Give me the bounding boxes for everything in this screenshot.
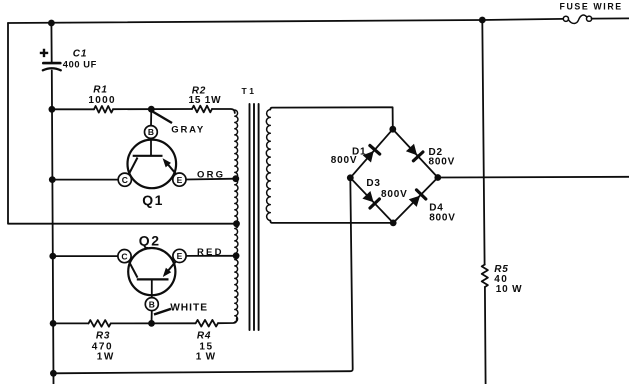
node R1/Q1-base junction [148,106,155,113]
node bridge left [347,174,354,181]
svg-text:1 W: 1 W [196,351,216,362]
resistor R2 [192,106,212,113]
svg-text:800V: 800V [429,212,456,223]
wire [113,108,192,110]
svg-text:B: B [148,127,154,137]
wire Q1 collector [52,179,118,181]
node rail-R1 [49,106,56,113]
resistor R3 [89,320,111,327]
svg-text:D3: D3 [366,178,380,189]
node rail-Q2C [49,253,56,260]
diode D1 [363,151,374,163]
svg-text:C1: C1 [73,49,87,60]
svg-text:R1: R1 [93,84,107,95]
pin C of Q1 [118,173,131,186]
svg-text:1W: 1W [97,351,115,362]
node T1 tap ORG [232,175,239,182]
wire to T1 primary top [212,109,235,113]
node bridge top [389,126,396,133]
transformer T1 primary winding [235,110,238,322]
node top-left C1 junction [48,20,55,27]
svg-text:C: C [121,251,127,261]
svg-text:FUSE WIRE: FUSE WIRE [560,1,623,11]
svg-text:R4: R4 [197,331,211,342]
svg-text:1000: 1000 [88,95,115,106]
node top R5 junction [479,17,486,24]
node rail-bottom return [50,370,57,377]
svg-text:B: B [149,299,155,309]
fuse wire symbol [563,16,568,21]
wire Q1 emitter ORG [186,178,236,181]
pin E of Q2 [173,249,186,262]
transistor Q2 [128,248,176,297]
svg-text:R3: R3 [96,331,110,342]
wire top rail [8,19,563,23]
wire R1-R2 base line [52,108,94,110]
node T1 tap RED [233,252,240,259]
wire GRAY pointer [153,112,173,124]
node rail-Q1C [49,176,56,183]
wire Q2 collector [53,255,118,257]
pin B of Q2 [145,298,158,311]
node bridge right [434,174,441,181]
node bridge bottom [390,220,397,227]
wire bridge negative return [53,178,352,373]
diode D2 [406,144,417,155]
svg-text:C: C [122,175,128,185]
svg-text:800V: 800V [331,155,358,166]
wire [484,287,487,384]
svg-text:15 1W: 15 1W [189,95,222,106]
polarity + of C1 [40,49,48,57]
wire Q2 base lead [151,311,153,324]
transformer T1 core [249,104,251,330]
svg-text:E: E [177,175,183,185]
svg-text:RED: RED [197,247,224,258]
node rail-R3 [50,320,57,327]
transistor Q1 [128,140,177,189]
svg-text:T1: T1 [242,86,257,96]
svg-text:800V: 800V [429,157,456,168]
wire secondary bottom to bridge [270,221,393,223]
wire R3-R4 line [53,322,88,324]
wire R4 to T1 primary bottom [218,318,237,323]
svg-text:10 W: 10 W [496,284,523,295]
svg-text:GRAY: GRAY [171,125,205,136]
wire Q2 emitter RED [186,255,236,257]
transformer T1 secondary winding [266,110,270,221]
wire bridge diamond [350,129,438,223]
wire DC output right [438,176,629,179]
resistor R1 [94,106,113,113]
svg-text:WHITE: WHITE [170,302,208,313]
wire left outer / center-tap line [8,23,237,224]
capacitor C1 plates [43,62,60,65]
wire main left rail [50,23,52,62]
wire R5 branch vertical [482,20,484,265]
pin B of Q1 [145,126,158,139]
pin E of Q1 [173,173,186,186]
svg-text:ORG: ORG [197,169,225,180]
resistor R5 [482,265,488,288]
wire WHITE pointer [154,309,171,315]
node Q2 base junction [148,320,155,327]
pin C of Q2 [118,250,131,263]
svg-text:E: E [177,251,183,261]
diode D4 [409,196,420,207]
wire Q1 base lead [150,109,152,126]
svg-text:800V: 800V [381,189,408,200]
svg-text:400 UF: 400 UF [63,59,97,69]
svg-text:Q2: Q2 [139,233,161,249]
resistor R4 [196,320,218,327]
svg-text:Q1: Q1 [142,192,164,208]
wire secondary top to bridge [270,107,393,129]
diode D3 [362,191,373,202]
wire [111,322,196,324]
node T1 center tap [233,220,240,227]
